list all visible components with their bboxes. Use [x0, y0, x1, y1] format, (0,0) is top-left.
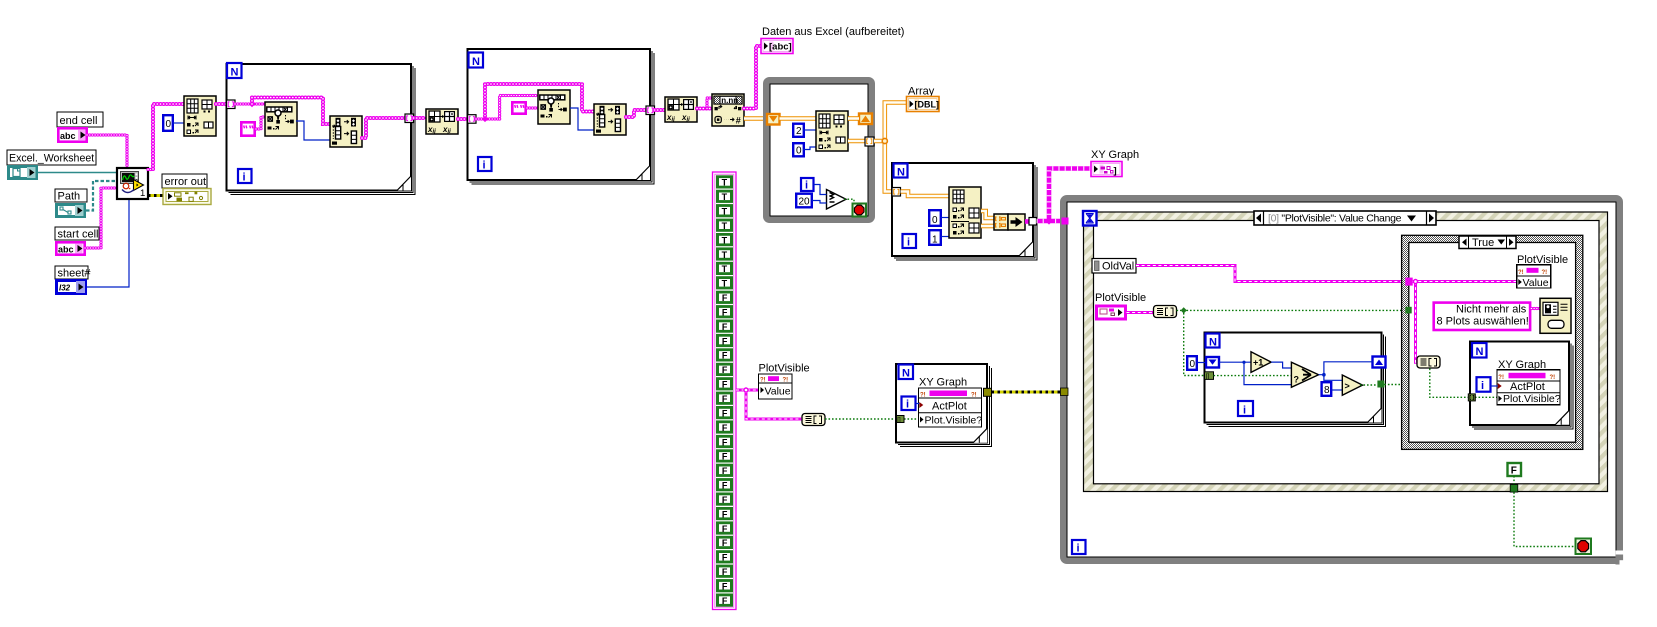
case xy loop left tunnel [1468, 394, 1475, 401]
svg-text:OldVal: OldVal [1102, 261, 1134, 273]
svg-text:Path: Path [58, 191, 81, 203]
svg-text:F: F [722, 308, 728, 318]
wires i and 20 to comparison [814, 185, 827, 195]
svg-text:0: 0 [796, 146, 802, 157]
wires 2 and 0 to array subset2 [803, 129, 816, 131]
svg-text:F: F [722, 509, 728, 519]
svg-text:8 Plots auswählen!: 8 Plots auswählen! [1437, 316, 1529, 328]
svg-text:ActPlot: ActPlot [932, 401, 967, 413]
svg-text:True: True [1472, 237, 1494, 249]
function match pattern (loop1) [265, 102, 297, 136]
svg-text:N: N [1209, 337, 1217, 349]
for loop 1 [227, 64, 416, 195]
svg-text:20: 20 [799, 197, 811, 208]
event structure timeout terminal (hourglass) [1083, 211, 1097, 226]
wire string branch riser to Daten indicator [744, 46, 761, 109]
svg-text:F: F [722, 365, 728, 375]
wire tunnel to junction and branches (orange 1D) [874, 103, 907, 192]
svg-text:Nicht mehr als: Nicht mehr als [1456, 304, 1527, 316]
svg-text:abc: abc [58, 245, 74, 255]
svg-text:PlotVisible: PlotVisible [1095, 292, 1146, 304]
svg-text:N: N [902, 368, 910, 380]
while1 right shift register [859, 114, 872, 125]
wire cluster array to XY Graph indicator and while2 [1037, 169, 1092, 222]
wires index array rows to bundle [981, 211, 994, 218]
loop 3 count terminal N [894, 164, 908, 179]
wire boolean to case ? tunnel [1384, 384, 1402, 386]
svg-text:[DBL]: [DBL] [915, 100, 940, 110]
function select [1291, 362, 1318, 387]
wire +1 to select top input [1271, 362, 1291, 368]
loop 1 iteration terminal i [238, 169, 252, 184]
xy loop iteration terminal i [902, 397, 916, 411]
event data node OldVal [1092, 259, 1136, 274]
svg-text:F: F [722, 351, 728, 361]
numeric constant 2 [793, 124, 804, 137]
for loop xy graph (case) [1470, 342, 1573, 429]
svg-text:F: F [722, 437, 728, 447]
path control Path [55, 189, 87, 217]
wire i to ActPlot [916, 403, 920, 405]
boolean array constant (8 true, 22 false) [713, 172, 737, 610]
svg-text:T: T [722, 221, 728, 231]
function build array (loop2) [594, 104, 626, 135]
wire Path to VI [86, 181, 117, 211]
string array indicator Daten aus Excel [761, 39, 793, 54]
wire build out to right tunnel [362, 118, 405, 138]
function variant-to-data (event top) [1154, 306, 1177, 318]
function transpose 2d array (1) [426, 109, 458, 135]
svg-text:F: F [722, 466, 728, 476]
svg-text:i: i [907, 237, 910, 249]
case selector label True [1459, 236, 1516, 249]
wire variant data to plot visible input (green) [1430, 369, 1497, 398]
svg-text:F: F [722, 524, 728, 534]
svg-text:F: F [722, 553, 728, 563]
function match pattern (loop2) [538, 90, 570, 124]
svg-text:F: F [722, 336, 728, 346]
event structure border [1084, 212, 1608, 492]
function index array (loop3) [949, 187, 981, 238]
wire tunnel to junction [235, 103, 265, 105]
loop 2 iteration terminal i [478, 157, 492, 172]
function build array (loop1) [330, 116, 362, 147]
wire match to build (blue) [296, 121, 330, 140]
junction loop2 [482, 116, 488, 122]
svg-text:F: F [722, 452, 728, 462]
string control start cell [55, 227, 99, 255]
svg-text:F: F [1511, 466, 1517, 477]
svg-text:?!: ?! [971, 393, 977, 399]
case xy loop iteration terminal i [1477, 377, 1491, 392]
boolean constant F [1508, 463, 1522, 477]
loop 2 count terminal N [469, 53, 484, 69]
function Array Subset (before loop 1) [184, 96, 216, 136]
wires 0 and 1 to index array [941, 217, 949, 219]
case left tunnel (variant, magenta) [1405, 278, 1412, 286]
wire branch to build array input [252, 98, 330, 125]
svg-text:T: T [722, 207, 728, 217]
iteration terminal i (while1) [801, 178, 814, 192]
svg-text:]: ] [1114, 166, 1117, 177]
wire shift register to increment and select [1219, 362, 1291, 384]
wire boolean to while2 stop terminal [1514, 492, 1576, 546]
svg-text:F: F [722, 567, 728, 577]
svg-text:F: F [722, 293, 728, 303]
wire number array to while loop (orange 2D) [744, 116, 766, 121]
wire loop1 to transpose [414, 117, 427, 119]
svg-text:F: F [722, 423, 728, 433]
svg-text:?!: ?! [920, 393, 926, 399]
function fract/exp string to number [712, 94, 744, 126]
svg-text:N: N [472, 56, 480, 68]
property node XY Graph ActPlot / Plot.Visible? [919, 388, 983, 427]
svg-text:N: N [897, 167, 905, 179]
while2 iteration terminal i [1072, 540, 1086, 555]
svg-text:T: T [722, 192, 728, 202]
wire transpose1 to loop2 [458, 118, 468, 120]
for loop XY Graph (bottom) [896, 364, 991, 447]
loop 1 left tunnel [227, 100, 236, 109]
while1 right tunnel [865, 137, 874, 146]
svg-text:?!: ?! [783, 378, 789, 384]
wire error cluster to while2 [992, 391, 1061, 394]
svg-text:[abc]: [abc] [769, 42, 792, 53]
control Excel._Worksheet refnum [7, 150, 96, 179]
loop 3 left tunnel [892, 188, 901, 197]
wire subset2 row out to tunnel [848, 139, 865, 144]
svg-text:PlotVisible: PlotVisible [759, 363, 810, 375]
case left tunnel (boolean, green) [1405, 307, 1411, 314]
function bundle [994, 214, 1025, 230]
wire branch A to build2 top input [485, 84, 594, 119]
svg-text:T: T [722, 264, 728, 274]
string constant empty (loop2) [512, 102, 525, 113]
svg-text:I32: I32 [59, 284, 71, 293]
comparison greater or equal [827, 190, 847, 210]
numeric control sheet# [55, 266, 91, 294]
junction (string wire) [249, 101, 256, 108]
case unwired tunnel ? [1402, 379, 1411, 391]
wire i to ActPlot (case) [1491, 385, 1498, 387]
wire VI string-array output riser [148, 169, 153, 171]
evloop iteration terminal i [1238, 401, 1253, 417]
wire subset out to loop1 tunnel [216, 103, 227, 105]
loop 3 iteration terminal i [903, 234, 917, 249]
numeric constant 0 (array subset index) [163, 115, 173, 131]
junction cluster wire [1045, 217, 1052, 224]
svg-text:ActPlot: ActPlot [1510, 381, 1545, 393]
indicator error out [162, 174, 211, 205]
wire loop2 to transpose2 [655, 109, 666, 111]
property node PlotVisible.Value (write) [759, 374, 793, 399]
junction boolean array wire [744, 388, 748, 392]
svg-text:0: 0 [166, 119, 172, 130]
evloop right tunnel (boolean, solid green) [1377, 381, 1384, 388]
wire shift reg to subset2 (orange 2D) [780, 116, 817, 121]
string control end cell [57, 112, 103, 142]
wire end cell string to Excel VI [87, 135, 127, 167]
comparison greater than [1342, 375, 1362, 395]
svg-text:XY Graph: XY Graph [919, 377, 967, 389]
svg-text:[0] "PlotVisible": Value Chang: [0] "PlotVisible": Value Change [1268, 213, 1402, 225]
svg-text:T: T [722, 235, 728, 245]
wire green boolean array with junction diamond [1177, 310, 1406, 375]
function increment +1 [1251, 352, 1271, 373]
numeric array indicator Array DBL [907, 97, 940, 112]
property node PlotVisible.Value (case) [1517, 265, 1551, 289]
wire 0 to shift register [1198, 362, 1206, 364]
function variant-to-data (bottom) [802, 414, 825, 426]
for loop 2 [468, 49, 655, 184]
svg-text:T: T [722, 279, 728, 289]
numeric constant 8 [1322, 382, 1332, 396]
svg-text:i: i [906, 399, 909, 411]
svg-text:[]: [] [897, 417, 901, 423]
control terminal PlotVisible (event) [1097, 306, 1126, 319]
wire 0 to array subset [173, 122, 184, 124]
svg-text:error out: error out [165, 176, 207, 188]
svg-text:i: i [243, 172, 246, 184]
svg-text:F: F [722, 322, 728, 332]
wire bundle to right tunnel [1025, 219, 1029, 224]
svg-text:F: F [722, 538, 728, 548]
wire build2 to right tunnel [626, 110, 646, 117]
numeric constant 1 (loop3) [929, 230, 941, 245]
for loop 3 [892, 163, 1037, 260]
svg-text:+1: +1 [1253, 358, 1263, 368]
while2 left tunnel (cluster, magenta) [1062, 218, 1069, 225]
svg-text:Value: Value [765, 386, 791, 398]
wire sheet# to VI [87, 199, 129, 287]
event structure selector header [1254, 211, 1436, 225]
numeric constant 0 [793, 143, 804, 156]
loop 2 left tunnel [468, 115, 477, 124]
evloop left shift register (blue) [1206, 357, 1219, 368]
numeric constant 0 (evloop) [1187, 356, 1197, 370]
svg-text:i: i [805, 180, 808, 192]
while2 conditional stop terminal [1576, 539, 1592, 555]
junction orange ring [882, 138, 887, 143]
evloop right shift register (blue) [1373, 357, 1386, 368]
while1 conditional stop terminal [853, 204, 867, 217]
function one button dialog [1540, 298, 1571, 333]
svg-text:end cell: end cell [60, 115, 98, 127]
wire variant inside case with junction [1413, 282, 1517, 363]
while2 corner autogrow notch [1616, 551, 1625, 565]
svg-text:?!: ?! [1542, 270, 1548, 276]
svg-text:8: 8 [1324, 385, 1330, 396]
wire start cell string to VI [85, 188, 117, 248]
loop 1 right tunnel [405, 114, 414, 123]
loop 3 right tunnel [1029, 218, 1037, 226]
svg-text:N: N [231, 67, 239, 79]
wire constant to match icon [256, 117, 265, 129]
function transpose 2d array (2) [665, 97, 697, 123]
sub-VI Excel Get Data (scope icon) [117, 168, 148, 199]
svg-text:N: N [1476, 346, 1484, 358]
svg-text:XY Graph: XY Graph [1091, 149, 1139, 161]
while1 left shift register [767, 114, 780, 125]
svg-text:0: 0 [1190, 359, 1196, 370]
wire PlotVisible to variant-to-data [1127, 311, 1154, 314]
svg-text:F: F [722, 394, 728, 404]
function array subset 2 (in while1) [816, 111, 848, 151]
svg-text:2: 2 [796, 126, 802, 137]
svg-text:Plot.Visible?: Plot.Visible? [925, 415, 983, 427]
event bottom tunnel (boolean, green) [1510, 485, 1518, 493]
string constant Nicht mehr als 8 Plots auswaehlen [1434, 303, 1530, 330]
wire constant2 to match2 [527, 107, 538, 109]
wire comparison to loop condition [844, 199, 854, 203]
function variant-to-data (case) [1417, 356, 1440, 368]
svg-text:F: F [722, 495, 728, 505]
for loop (count plots) in event [1205, 333, 1386, 427]
svg-text:>: > [1345, 381, 1350, 391]
svg-text:XY Graph: XY Graph [1498, 359, 1546, 371]
wire F to event tunnel [1513, 476, 1515, 485]
loop 2 right tunnel [646, 106, 655, 115]
svg-text:Value: Value [1523, 277, 1549, 289]
xy loop count terminal N [899, 365, 914, 380]
wire message to dialog [1531, 308, 1540, 310]
svg-text:?!: ?! [1550, 375, 1556, 381]
wire subset2 to right shift register [848, 116, 859, 121]
svg-text:[]: [] [1206, 373, 1210, 380]
wire transpose2 to string-to-number [697, 108, 712, 110]
wire error cluster VI to error out [148, 194, 163, 197]
svg-text:F: F [722, 481, 728, 491]
junction diamond green [1181, 307, 1187, 313]
svg-text:F: F [722, 596, 728, 606]
svg-text:Array: Array [908, 86, 935, 98]
wire comparison to right tunnel [1360, 384, 1377, 386]
svg-text:F: F [722, 408, 728, 418]
evloop left tunnel (boolean array) [1205, 372, 1214, 380]
evloop count terminal N [1206, 334, 1220, 349]
wire branch B to match2 input [500, 96, 538, 120]
svg-text:1: 1 [932, 234, 938, 245]
svg-text:?!: ?! [760, 378, 766, 384]
xy loop right tunnel (error) [984, 388, 992, 396]
wire OldVal variant to case (pink dashed) [1136, 266, 1406, 282]
wire 8 to comparison [1332, 389, 1343, 391]
svg-text:Plot.Visible?: Plot.Visible? [1503, 393, 1561, 405]
svg-text:F: F [722, 380, 728, 390]
svg-text:i: i [1077, 543, 1080, 555]
svg-text:sheet#: sheet# [58, 268, 92, 280]
wire to xy loop plot.visible input (green) [825, 418, 920, 420]
svg-text:i: i [483, 160, 486, 172]
loop 1 count terminal N [227, 63, 242, 79]
svg-text:i: i [1481, 380, 1484, 392]
wire tunnel in loop2 with branches [476, 118, 500, 120]
wire match2 to build2 (blue) [570, 108, 594, 130]
wire tunnel to index array [901, 192, 950, 197]
svg-text:?: ? [1294, 375, 1300, 385]
while2 left tunnel (error, olive) [1061, 388, 1069, 396]
svg-text:?!: ?! [1518, 270, 1524, 276]
numeric constant 0 (loop3) [929, 210, 941, 226]
wire boolean array output (pink dashed) [736, 390, 802, 419]
svg-text:0: 0 [932, 215, 938, 226]
case xy loop count terminal N [1472, 343, 1487, 358]
string constant empty (loop1) [241, 122, 254, 135]
wire select output junction [1319, 362, 1373, 381]
wire boolean to select middle input [1214, 375, 1292, 377]
while loop 2 (outer) [1064, 199, 1620, 561]
svg-text:i: i [1243, 405, 1246, 417]
svg-text:?!: ?! [1498, 375, 1504, 381]
xy loop left tunnel (boolean array) [897, 416, 905, 424]
while loop 1 [767, 81, 872, 220]
svg-text:Daten aus Excel (aufbereitet): Daten aus Excel (aufbereitet) [762, 26, 904, 38]
property node XY Graph ActPlot / Plot.Visible? (case) [1497, 370, 1561, 405]
svg-text:Excel._Worksheet: Excel._Worksheet [9, 153, 94, 165]
svg-text:abc: abc [60, 131, 76, 141]
wire Excel worksheet refnum to VI [38, 172, 117, 174]
svg-text:start cell: start cell [58, 229, 99, 241]
case structure True [1402, 235, 1583, 449]
numeric constant 20 [796, 194, 812, 208]
svg-text:T: T [722, 250, 728, 260]
svg-text:T: T [722, 178, 728, 188]
svg-text:F: F [722, 582, 728, 592]
XY Graph indicator [1091, 162, 1122, 177]
